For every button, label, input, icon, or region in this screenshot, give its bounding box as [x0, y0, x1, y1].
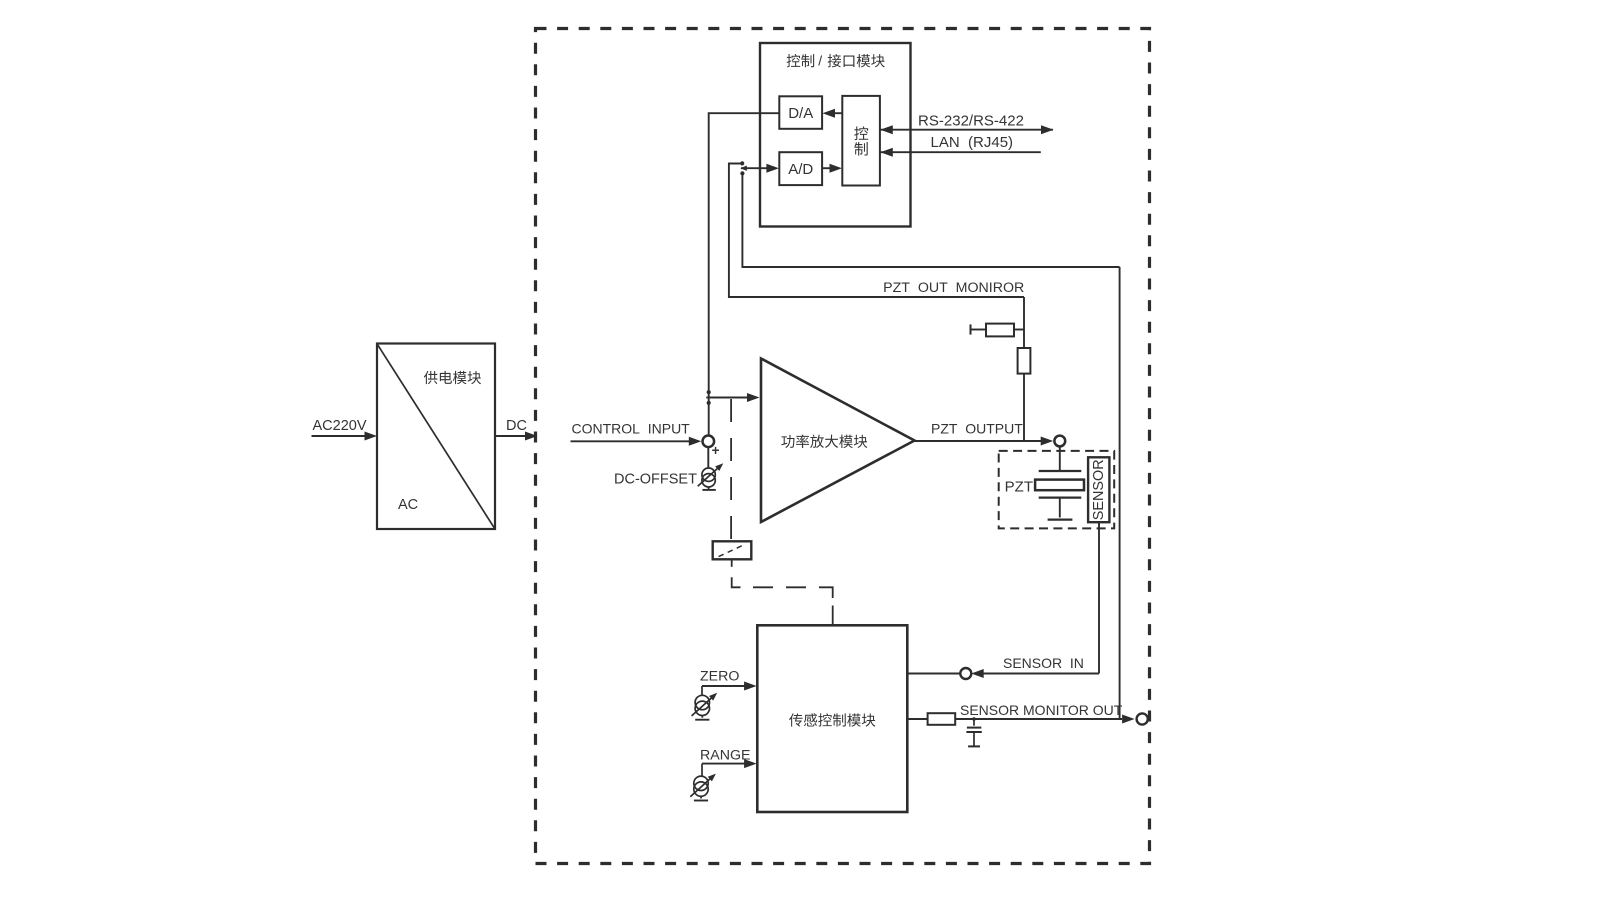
wire sensor monitor up to A/D — [742, 173, 1119, 267]
SENSOR IN wire from module — [907, 673, 961, 675]
svg-text:RS-232/RS-422: RS-232/RS-422 — [918, 113, 1024, 130]
svg-text:PZT OUT MONIROR: PZT OUT MONIROR — [883, 280, 1024, 296]
PZT cell top plate — [1039, 470, 1082, 472]
DC-OFFSET adjustable source — [698, 461, 726, 490]
wire bottom plate down — [1059, 498, 1061, 518]
D/A label — [788, 105, 813, 122]
junction dot A/D input upper — [740, 161, 744, 165]
A/D converter box — [779, 152, 822, 185]
wire monitor divider drop — [1023, 297, 1025, 348]
CONTROL INPUT label — [572, 421, 691, 437]
power module title 供电模块 — [424, 371, 481, 384]
wire node to PZT cell — [1059, 447, 1061, 470]
power module 供电模块 box — [377, 344, 495, 530]
svg-text:A/D: A/D — [788, 161, 813, 178]
RANGE label — [700, 748, 750, 764]
svg-text:D/A: D/A — [788, 105, 813, 122]
svg-text:LAN (RJ45): LAN (RJ45) — [931, 134, 1014, 151]
AC220V input label — [313, 418, 367, 434]
control/interface module box 控制/接口模块 — [760, 43, 911, 227]
wire sensor down to SENSOR IN — [1098, 522, 1100, 673]
monitor resistor R1 terminal tick — [970, 324, 972, 334]
CONTROL INPUT node circle — [703, 436, 715, 448]
wire ZERO source — [701, 686, 703, 696]
wire D/A to summing node — [709, 113, 780, 436]
amplifier input arrow — [706, 393, 759, 402]
RANGE adjustable source — [690, 771, 718, 800]
SENSOR MONITOR OUT line — [955, 715, 1134, 724]
SENSOR IN label — [1003, 655, 1084, 671]
RS-232/RS-422 label — [918, 113, 1024, 130]
arrow 控制 to D/A — [823, 109, 843, 118]
arrow A/D to 控制 — [822, 164, 842, 173]
svg-text:AC220V: AC220V — [313, 418, 367, 434]
dashed linkage from summing point — [730, 399, 732, 541]
PZT label — [1005, 479, 1033, 496]
svg-text:PZT OUTPUT: PZT OUTPUT — [931, 421, 1023, 437]
wire node to DC-OFFSET source — [707, 447, 709, 468]
summing junction dot upper — [707, 390, 711, 394]
DC-OFFSET label — [614, 472, 697, 488]
sensor control module 传感控制模块 box — [757, 625, 907, 812]
svg-text:DC: DC — [506, 418, 527, 434]
控制 (control) box — [842, 96, 880, 186]
sensor monitor resistor lead — [907, 718, 927, 720]
monitor resistor R1 left lead — [971, 329, 987, 331]
wire R2 to PZT output line — [1023, 374, 1025, 441]
A/D label — [788, 161, 813, 178]
monitor resistor R2 (vertical) — [1018, 348, 1031, 374]
amplifier label 功率放大模块 — [781, 435, 867, 448]
PZT ceramic element — [1035, 480, 1084, 491]
CONTROL INPUT arrow — [571, 437, 702, 446]
svg-text:RANGE: RANGE — [700, 748, 750, 764]
power module AC label — [398, 497, 418, 513]
SENSOR MONITOR OUT node circle — [1137, 713, 1148, 724]
PZT OUT MONIROR label — [883, 280, 1024, 296]
A/D input arrow — [740, 164, 779, 173]
wire sensor-monitor right drop — [1119, 267, 1121, 719]
op-amp 功率放大模块 triangle — [761, 359, 915, 523]
filter cap junction dot — [972, 717, 976, 721]
PZT dashed enclosure — [999, 451, 1114, 529]
monitor resistor R1 (horizontal) — [986, 324, 1014, 337]
wire PZT monitor up to A/D — [729, 164, 1024, 298]
SENSOR box — [1088, 457, 1109, 522]
SENSOR vertical label — [1091, 459, 1107, 520]
DC output arrow — [495, 432, 538, 441]
LAN line into 控制 — [880, 148, 1041, 157]
monitor resistor R1 right lead — [1014, 329, 1024, 331]
ZERO adjustable source — [692, 690, 720, 719]
svg-text:AC: AC — [398, 497, 418, 513]
AC220V input arrow — [312, 432, 378, 441]
svg-text:SENSOR: SENSOR — [1091, 459, 1107, 520]
RS-232/RS-422 line (bidirectional) — [880, 125, 1054, 134]
SENSOR IN node circle — [960, 668, 971, 679]
svg-text:SENSOR IN: SENSOR IN — [1003, 655, 1084, 671]
LAN (RJ45) label — [931, 134, 1014, 151]
svg-text:PZT: PZT — [1005, 479, 1033, 496]
filter capacitor — [966, 719, 981, 746]
DC output label — [506, 418, 527, 434]
svg-text:DC-OFFSET: DC-OFFSET — [614, 472, 697, 488]
svg-text:CONTROL INPUT: CONTROL INPUT — [572, 421, 691, 437]
ZERO input arrow — [702, 682, 757, 691]
sensor monitor resistor — [928, 713, 956, 725]
SENSOR IN arrow — [971, 669, 1099, 678]
ZERO label — [700, 669, 739, 685]
wire RANGE source — [701, 764, 703, 777]
gain adjust box diagonal — [719, 544, 746, 557]
svg-text:/: / — [818, 52, 822, 68]
plus sign at summing node — [712, 443, 720, 458]
svg-text:+: + — [712, 443, 720, 458]
svg-text:SENSOR MONITOR OUT: SENSOR MONITOR OUT — [960, 702, 1123, 718]
控制 vertical label — [854, 126, 868, 155]
gain adjust box (dashed diagonal) — [713, 541, 752, 559]
PZT cell bottom terminal tick — [1048, 518, 1073, 520]
sensor control title 传感控制模块 — [789, 713, 875, 726]
summing junction dot lower — [707, 401, 711, 405]
outer dashed enclosure — [536, 29, 1150, 864]
control/interface title 控制 / 接口模块 — [787, 52, 885, 68]
PZT OUTPUT label — [931, 421, 1023, 437]
svg-text:ZERO: ZERO — [700, 669, 739, 685]
PZT cell bottom plate — [1039, 496, 1082, 498]
junction dot A/D input lower — [740, 171, 744, 175]
power module AC/DC diagonal — [378, 345, 494, 528]
SENSOR MONITOR OUT label — [960, 702, 1123, 718]
dashed linkage to sensor control module — [732, 559, 833, 625]
PZT OUTPUT node circle — [1054, 436, 1065, 447]
RANGE input arrow — [702, 759, 757, 768]
PZT output line — [915, 437, 1054, 446]
D/A converter box — [779, 96, 822, 129]
